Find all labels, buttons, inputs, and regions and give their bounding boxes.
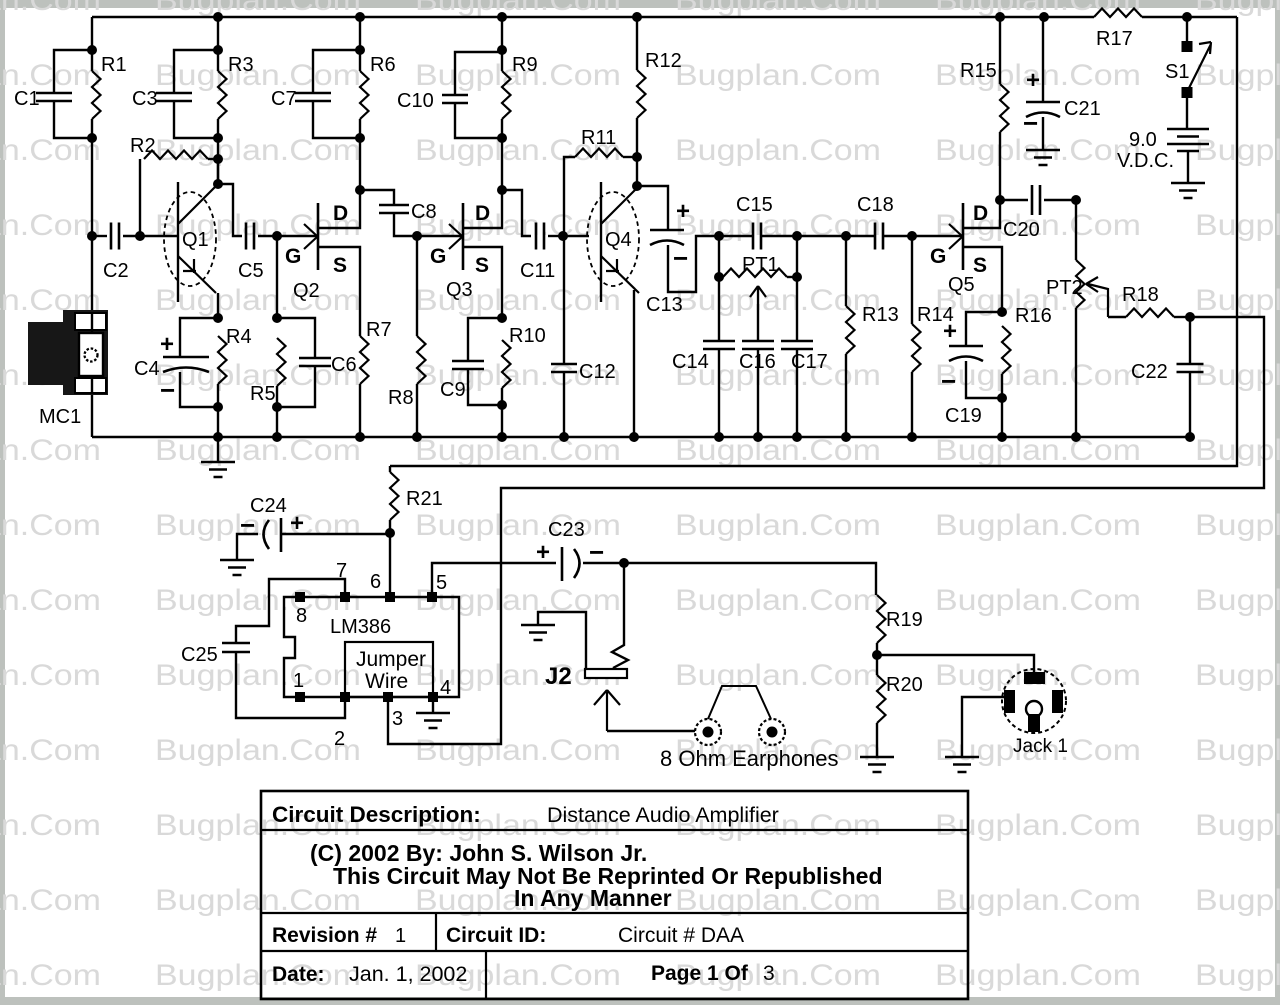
wire R14 top — [911, 236, 913, 324]
wire R19 to R20 — [876, 643, 878, 675]
svg-text:5: 5 — [436, 572, 447, 594]
capacitor C18 — [857, 194, 894, 250]
svg-text:C18: C18 — [857, 194, 894, 216]
capacitor C2 — [103, 223, 129, 283]
wire C25 bottom to pin2 — [236, 652, 345, 718]
svg-text:Q3: Q3 — [446, 279, 473, 301]
capacitor C22 — [1131, 361, 1204, 383]
svg-text:Bugplan.Com: Bugplan.Com — [415, 434, 621, 467]
junction dots drain row — [995, 195, 1081, 205]
svg-text:C21: C21 — [1064, 98, 1101, 120]
svg-text:Bugplan.Com: Bugplan.Com — [675, 59, 881, 92]
capacitor C24 — [240, 495, 304, 552]
wire plug arrow to earphones — [607, 730, 695, 732]
svg-text:C2: C2 — [103, 260, 129, 282]
op-amp U1 LM386 — [284, 597, 459, 697]
svg-text:+: + — [160, 331, 174, 358]
pin 5 label — [436, 572, 447, 594]
svg-text:R5: R5 — [250, 383, 276, 405]
capacitor C7 — [271, 88, 331, 110]
wire C20 left — [1000, 199, 1028, 201]
resistor R18 — [1122, 284, 1174, 317]
svg-text:Bugplan.Com: Bugplan.Com — [935, 434, 1141, 467]
svg-text:PT2: PT2 — [1046, 277, 1083, 299]
svg-text:C10: C10 — [397, 90, 434, 112]
svg-text:Jumper: Jumper — [356, 648, 426, 671]
svg-text:C8: C8 — [411, 201, 437, 223]
potentiometer PT2 — [1046, 260, 1085, 308]
wire J2 sleeve to ground — [538, 612, 586, 670]
svg-text:C15: C15 — [736, 194, 773, 216]
svg-text:R11: R11 — [581, 127, 616, 149]
svg-text:1: 1 — [293, 670, 304, 692]
svg-text:R15: R15 — [960, 60, 997, 82]
svg-text:Bugplan.Com: Bugplan.Com — [935, 584, 1141, 617]
svg-text:−: − — [673, 243, 688, 273]
wire R21 feed corner — [389, 466, 391, 472]
svg-text:LM386: LM386 — [330, 616, 391, 638]
wire R10 bottom to ground rail — [501, 388, 503, 437]
svg-text:8: 8 — [296, 605, 307, 627]
svg-text:D: D — [475, 202, 490, 225]
junction dots ground rail — [213, 432, 1195, 442]
svg-text:Circuit Description:: Circuit Description: — [272, 802, 481, 827]
wire ground rail — [92, 436, 1190, 438]
svg-text:C4: C4 — [134, 358, 160, 380]
svg-text:Q1: Q1 — [182, 229, 209, 251]
wire R19/R20 node to Jack1 — [877, 655, 1034, 672]
svg-text:Bugplan.Com: Bugplan.Com — [155, 734, 361, 767]
pin 7 label — [336, 560, 347, 582]
capacitor C15 — [736, 194, 773, 250]
wire C19 bottom link — [966, 361, 1002, 398]
capacitor C14 — [672, 341, 735, 373]
svg-text:1: 1 — [395, 925, 406, 947]
svg-text:R4: R4 — [226, 326, 252, 348]
svg-text:R21: R21 — [406, 488, 443, 510]
ground C21 — [1026, 150, 1060, 165]
wire C3 top link — [174, 50, 218, 93]
svg-text:−: − — [941, 366, 956, 396]
capacitor C9 — [440, 361, 484, 401]
wire Q4 gate row — [563, 235, 589, 237]
svg-text:Revision #: Revision # — [272, 924, 377, 947]
svg-text:Bugplan.Com: Bugplan.Com — [0, 734, 101, 767]
wire R15 column bottom — [999, 132, 1001, 200]
resistor R21 — [390, 472, 443, 520]
svg-text:Bugplan.Com: Bugplan.Com — [155, 0, 361, 17]
wire C21 top — [1042, 17, 1044, 102]
resistor R16 — [1002, 305, 1052, 374]
potentiometer PT1 wiper arrow — [750, 286, 766, 304]
wire pin4 ground stub — [432, 702, 434, 713]
capacitor C20 — [1003, 185, 1040, 241]
svg-text:R16: R16 — [1015, 305, 1052, 327]
wire C23 to output node — [583, 562, 624, 564]
wire C15 left — [719, 235, 752, 237]
svg-text:+: + — [290, 510, 304, 537]
svg-text:MC1: MC1 — [39, 406, 81, 428]
wire C2 to Q1 base — [123, 235, 178, 237]
capacitor C5 — [238, 223, 264, 283]
svg-text:Bugplan.Com: Bugplan.Com — [0, 434, 101, 467]
svg-text:Bugplan.Com: Bugplan.Com — [0, 959, 101, 992]
capacitor C13 — [646, 198, 690, 316]
pin 6 label — [370, 571, 381, 593]
wire J2 tip spring — [612, 563, 628, 668]
8 Ohm earphones — [660, 686, 839, 771]
wire R18 left — [1108, 316, 1126, 318]
capacitor C11 — [520, 223, 555, 283]
wire S1 top stub — [1186, 17, 1188, 41]
title block frame — [261, 791, 968, 999]
wire R13 top — [845, 236, 847, 306]
wire R8 bottom to ground rail — [416, 384, 418, 437]
wire R14 bottom — [911, 372, 913, 437]
svg-text:Wire: Wire — [365, 670, 408, 693]
wire C22 top — [1189, 317, 1191, 363]
pin 1 label — [293, 670, 304, 692]
svg-text:G: G — [930, 245, 946, 268]
pin 4 label — [440, 677, 451, 699]
svg-text:C23: C23 — [548, 519, 585, 541]
wire R12 column middle — [636, 118, 638, 186]
capacitor C6 — [299, 354, 357, 376]
resistor R20 — [877, 674, 923, 723]
wire R8 top — [416, 236, 418, 336]
svg-text:Date:: Date: — [272, 963, 325, 986]
svg-text:C6: C6 — [331, 354, 357, 376]
capacitor C23 — [536, 519, 604, 581]
wire PT1 right drop — [796, 236, 798, 277]
wire ground stub main — [217, 437, 219, 462]
svg-text:S1: S1 — [1165, 61, 1189, 83]
transistor Q4 — [587, 182, 641, 302]
wire C6 bottom link — [277, 366, 315, 407]
wire C7 top link — [313, 50, 360, 93]
wire C10 bottom link — [455, 103, 502, 138]
wire C14 bottom — [718, 349, 720, 437]
svg-text:Bugplan.Com: Bugplan.Com — [675, 134, 881, 167]
junction dots row 138 — [87, 133, 507, 143]
svg-text:+: + — [943, 318, 957, 345]
svg-text:Bugplan.Com: Bugplan.Com — [1195, 734, 1280, 767]
svg-text:Bugplan.Com: Bugplan.Com — [675, 0, 881, 17]
wire C20 right — [1044, 199, 1076, 201]
wire R11 left drop — [564, 157, 575, 236]
svg-text:S: S — [475, 254, 489, 277]
junction dot R21 node — [385, 528, 395, 538]
wire C1 bottom link — [54, 101, 92, 138]
capacitor C1 — [14, 88, 72, 110]
resistor R2 — [130, 135, 208, 159]
junction dot output node — [619, 558, 629, 568]
svg-text:Bugplan.Com: Bugplan.Com — [1195, 659, 1280, 692]
svg-text:Bugplan.Com: Bugplan.Com — [0, 809, 101, 842]
resistor R9 — [502, 54, 538, 119]
svg-text:3: 3 — [392, 708, 403, 730]
capacitor C25 — [181, 643, 250, 666]
svg-text:C14: C14 — [672, 351, 709, 373]
wire pin6 riser — [389, 533, 391, 592]
wire C14 top — [718, 277, 720, 341]
resistor R15 — [960, 60, 1009, 132]
resistor R4 — [218, 326, 252, 384]
resistor R12 — [637, 50, 682, 118]
capacitor C10 — [397, 90, 468, 112]
junction dots signal row — [87, 231, 917, 241]
svg-text:9.0: 9.0 — [1129, 129, 1157, 151]
wire R6 column top — [359, 17, 361, 71]
wire C22 bottom — [1189, 371, 1191, 437]
resistor R14 — [912, 304, 954, 372]
svg-text:G: G — [285, 245, 301, 268]
title block text row2 — [310, 840, 883, 911]
svg-text:4: 4 — [440, 677, 451, 699]
svg-text:Bugplan.Com: Bugplan.Com — [1195, 509, 1280, 542]
connector Jack 1 — [1002, 669, 1068, 757]
pin 2 label — [334, 728, 345, 750]
svg-text:R6: R6 — [370, 54, 396, 76]
svg-text:Bugplan.Com: Bugplan.Com — [1195, 884, 1280, 917]
wire C21 bottom — [1042, 117, 1044, 150]
svg-text:Bugplan.Com: Bugplan.Com — [935, 809, 1141, 842]
svg-text:Bugplan.Com: Bugplan.Com — [675, 284, 881, 317]
wire Q1 emitter to R4 — [217, 293, 219, 318]
wire C10 top link — [455, 52, 502, 95]
junction dot R18 node — [1185, 312, 1195, 322]
wire R3 column top — [217, 17, 219, 71]
wire C12 bottom to ground rail — [563, 372, 565, 437]
wire R6 column middle — [359, 119, 361, 190]
wire row to R13 — [797, 235, 846, 237]
wire R2 left drop — [139, 159, 141, 236]
svg-text:Bugplan.Com: Bugplan.Com — [415, 734, 621, 767]
svg-text:+: + — [676, 198, 690, 225]
svg-text:3: 3 — [763, 962, 775, 985]
svg-text:C11: C11 — [520, 260, 555, 282]
svg-text:Bugplan.Com: Bugplan.Com — [155, 59, 361, 92]
wire V+ right-side drop to R21 feed line — [390, 17, 1237, 466]
capacitor C21 — [1023, 67, 1101, 138]
microphone MC1 — [28, 310, 108, 428]
ground battery — [1171, 183, 1205, 198]
svg-text:Bugplan.Com: Bugplan.Com — [0, 509, 101, 542]
wire MC1 to ground rail corner — [91, 393, 93, 437]
transistor Q1 — [164, 182, 218, 302]
wire C24 left link — [237, 534, 258, 560]
wire pin7 to C25 — [236, 579, 345, 643]
wire R3 column middle — [217, 119, 219, 184]
capacitor C8 — [379, 201, 437, 223]
svg-text:6: 6 — [370, 571, 381, 593]
svg-text:−: − — [240, 510, 255, 540]
svg-text:Circuit # DAA: Circuit # DAA — [618, 924, 744, 947]
svg-text:Bugplan.Com: Bugplan.Com — [675, 584, 881, 617]
jack J2 plug arrow — [594, 690, 620, 731]
wire C24 right link — [281, 533, 390, 535]
svg-text:C1: C1 — [14, 88, 40, 110]
svg-text:C20: C20 — [1003, 219, 1040, 241]
svg-text:Bugplan.Com: Bugplan.Com — [155, 959, 361, 992]
wire C3 bottom link — [174, 101, 218, 138]
title block text row4 — [272, 962, 775, 986]
wire R12 column top — [636, 17, 638, 70]
svg-text:Bugplan.Com: Bugplan.Com — [0, 0, 101, 17]
wire C4 top link — [180, 318, 218, 357]
potentiometer PT1 — [723, 254, 787, 277]
svg-text:C13: C13 — [646, 294, 683, 316]
svg-text:C9: C9 — [440, 379, 466, 401]
resistor R17 — [1094, 9, 1142, 51]
ground C24 — [220, 560, 254, 575]
wire Q2 source column to R7 — [359, 247, 361, 336]
wire output node to R19 corner — [624, 563, 876, 595]
wire PT2 top — [1075, 200, 1077, 260]
battery 9.0 V.D.C. — [1117, 129, 1209, 172]
wire battery to ground — [1187, 151, 1189, 183]
resistor R3 — [218, 54, 254, 119]
svg-text:Bugplan.Com: Bugplan.Com — [935, 0, 1141, 17]
title block text row1 — [272, 802, 779, 827]
resistor R10 — [502, 325, 546, 388]
svg-text:Bugplan.Com: Bugplan.Com — [155, 284, 361, 317]
svg-text:R3: R3 — [228, 54, 254, 76]
capacitor C4 — [134, 331, 209, 405]
wire C1 top link — [54, 50, 92, 93]
svg-text:Circuit ID:: Circuit ID: — [446, 924, 546, 947]
wire C11 to R11 node — [548, 235, 563, 237]
wire C9 top link — [468, 318, 502, 361]
svg-text:R13: R13 — [862, 304, 899, 326]
svg-text:Bugplan.Com: Bugplan.Com — [935, 959, 1141, 992]
wire Q5 gate row — [912, 235, 963, 237]
junction dots row 50 — [87, 45, 507, 55]
svg-text:C7: C7 — [271, 88, 297, 110]
svg-text:Q5: Q5 — [948, 274, 975, 296]
transistor Q3 JFET — [430, 190, 502, 318]
svg-text:Bugplan.Com: Bugplan.Com — [1195, 0, 1280, 17]
svg-text:R17: R17 — [1096, 28, 1133, 50]
wire R1 column top — [91, 17, 93, 71]
jumper wire box — [345, 642, 433, 697]
resistor R8 — [388, 336, 426, 409]
transistor Q2 JFET — [285, 190, 360, 302]
svg-text:R7: R7 — [366, 319, 392, 341]
wire R16 bottom — [1001, 374, 1003, 437]
wire R1 column to MC1 — [91, 119, 93, 312]
wire R13 bottom — [845, 354, 847, 437]
wire Q2 gate column — [276, 236, 278, 318]
wire mic signal row — [92, 235, 107, 237]
capacitor C19 — [941, 318, 983, 427]
svg-text:Q4: Q4 — [605, 229, 632, 251]
svg-text:R19: R19 — [886, 609, 923, 631]
wire C5 to Q2 gate — [258, 235, 318, 237]
wire PT1 left drop — [718, 236, 720, 277]
svg-text:Bugplan.Com: Bugplan.Com — [1195, 809, 1280, 842]
svg-text:C19: C19 — [945, 405, 982, 427]
svg-text:8 Ohm Earphones: 8 Ohm Earphones — [660, 746, 839, 771]
svg-text:Bugplan.Com: Bugplan.Com — [415, 0, 621, 17]
svg-text:C22: C22 — [1131, 361, 1168, 383]
svg-text:R8: R8 — [388, 387, 414, 409]
svg-text:V.D.C.: V.D.C. — [1117, 150, 1174, 172]
resistor R19 — [877, 595, 923, 643]
svg-text:C3: C3 — [132, 88, 158, 110]
svg-text:PT1: PT1 — [742, 254, 779, 276]
wire PT1 left stub — [719, 276, 723, 278]
svg-text:R12: R12 — [645, 50, 682, 72]
wire V+ top rail right section — [1142, 16, 1237, 18]
capacitor C16 — [739, 341, 776, 373]
wire C17 bottom — [796, 349, 798, 437]
svg-text:C5: C5 — [238, 260, 264, 282]
ground Jack1 — [945, 757, 979, 772]
wire Q4 source column to ground — [633, 290, 635, 437]
svg-text:Bugplan.Com: Bugplan.Com — [675, 509, 881, 542]
wire C16 bottom — [757, 349, 759, 437]
wire C9 bottom link — [468, 369, 502, 405]
resistor R7 — [360, 319, 392, 384]
svg-text:Bugplan.Com: Bugplan.Com — [155, 584, 361, 617]
ground R20 — [860, 757, 894, 772]
junction dots bias nodes — [213, 152, 642, 195]
jack J2 plate — [545, 663, 627, 690]
wire Q1 collector to C5 — [218, 184, 242, 236]
svg-text:Bugplan.Com: Bugplan.Com — [1195, 584, 1280, 617]
wire V+ top rail left section — [92, 16, 1094, 18]
wire R20 to ground — [876, 723, 878, 757]
svg-text:Page 1 Of: Page 1 Of — [651, 962, 749, 985]
wire C7 bottom link — [313, 101, 360, 138]
wire C12 top — [563, 236, 565, 364]
wire R4 bottom to ground rail — [217, 384, 219, 437]
wire C8 to Q3 gate — [394, 213, 463, 236]
svg-text:Distance Audio Amplifier: Distance Audio Amplifier — [547, 803, 779, 827]
svg-text:Bugplan.Com: Bugplan.Com — [0, 209, 101, 242]
wire C18 right — [884, 235, 912, 237]
wire C16 top — [757, 304, 759, 341]
svg-text:S: S — [973, 254, 987, 277]
resistor R1 — [92, 54, 127, 119]
svg-text:Bugplan.Com: Bugplan.Com — [0, 584, 101, 617]
svg-text:Jan. 1, 2002: Jan. 1, 2002 — [349, 962, 467, 986]
svg-text:−: − — [1023, 108, 1038, 138]
wire R2 right link — [208, 158, 218, 160]
junction dots source nodes — [213, 307, 1007, 412]
wire PT1 right stub — [787, 276, 797, 278]
svg-text:Bugplan.Com: Bugplan.Com — [675, 659, 881, 692]
wire C6 top link — [277, 318, 315, 358]
wire C13 bottom link — [668, 236, 719, 292]
resistor R6 — [360, 54, 396, 119]
ground J2 — [521, 625, 555, 640]
junction dots V+ rail — [213, 12, 1192, 22]
svg-text:D: D — [973, 202, 988, 225]
svg-text:+: + — [1026, 67, 1040, 94]
wire R15 column top — [999, 17, 1001, 84]
svg-text:C24: C24 — [250, 495, 287, 517]
resistor R5 — [250, 338, 286, 405]
svg-text:Bugplan.Com: Bugplan.Com — [935, 509, 1141, 542]
svg-text:R9: R9 — [512, 54, 538, 76]
svg-text:Bugplan.Com: Bugplan.Com — [0, 659, 101, 692]
potentiometer PT2 wiper arrow — [1086, 277, 1108, 317]
svg-text:Jack 1: Jack 1 — [1013, 736, 1068, 757]
wire R11 right link — [623, 156, 637, 158]
capacitor C12 — [551, 361, 616, 383]
